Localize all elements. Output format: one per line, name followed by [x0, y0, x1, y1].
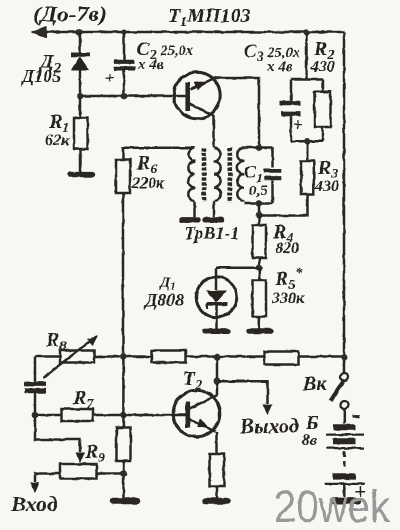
ground under left winding: [182, 217, 198, 222]
svg-text:х 4в: х 4в: [266, 59, 293, 75]
node junction bus/R6 line: [120, 353, 127, 360]
resistor R6: [116, 148, 194, 357]
node junction R4/R5: [256, 264, 263, 271]
capacitor input left: [25, 382, 47, 387]
resistor bus middle: [152, 351, 186, 363]
wire T1 emitter to tank top: [213, 78, 259, 148]
resistor bus right: [265, 352, 299, 365]
resistor R8: [60, 351, 94, 363]
svg-text:R8: R8: [45, 329, 66, 354]
wire zener link: [216, 267, 259, 270]
svg-text:R9: R9: [84, 441, 105, 466]
zener diode D1: [196, 268, 237, 331]
transformer core bars: [202, 148, 207, 202]
ground below R1: [70, 172, 93, 177]
wire tank loop bottom: [244, 202, 273, 205]
wire R3 bottom connector: [259, 194, 308, 216]
node junction top of D2: [76, 29, 83, 36]
svg-text:430: 430: [314, 178, 339, 195]
inductor tank winding: [237, 148, 244, 202]
ground under D1: [205, 329, 229, 334]
svg-text:20wek: 20wek: [274, 481, 390, 530]
resistor R9: [60, 464, 97, 479]
wire tank loop top: [244, 146, 273, 149]
diode D2: [71, 32, 91, 96]
wire feedback bus: [35, 355, 344, 358]
node junction D2/R1: [77, 93, 84, 100]
svg-text:R7: R7: [72, 387, 94, 412]
node junction R3 top: [304, 138, 311, 145]
resistor R2: [291, 33, 331, 142]
svg-text:(До-7в): (До-7в): [33, 2, 107, 26]
wire T2 emitter down: [215, 432, 218, 454]
switch Bk: [331, 357, 349, 423]
svg-text:С1: С1: [244, 162, 263, 185]
node junction tank top: [256, 144, 263, 151]
svg-text:+: +: [105, 68, 115, 87]
svg-text:Б: Б: [305, 412, 319, 434]
svg-text:Вк: Вк: [302, 373, 327, 395]
node junction R7 / R6-line: [120, 412, 127, 419]
node junction top of C2: [121, 29, 126, 34]
capacitor C1: [264, 148, 282, 204]
capacitor C2: [114, 32, 135, 96]
node junction tank bottom: [256, 200, 263, 207]
node junction R4 top: [256, 212, 263, 219]
node junction output branch: [214, 378, 221, 385]
node arrow output: [263, 405, 272, 416]
resistor T2 emitter: [210, 454, 225, 487]
resistor R5: [253, 268, 267, 331]
wire output branch: [217, 381, 268, 404]
wire top supply rail: [33, 31, 344, 34]
wire T1 collector down to winding: [212, 116, 215, 149]
svg-text:330к: 330к: [271, 290, 305, 307]
svg-text:62к: 62к: [45, 132, 70, 149]
ground below R9: [113, 498, 137, 505]
svg-text:820: 820: [275, 240, 299, 257]
wire tank to R4: [258, 204, 261, 216]
node R9 wiper arrowhead: [76, 453, 85, 464]
svg-text:R5*: R5*: [274, 266, 303, 293]
wire base of T2 / R7: [35, 414, 186, 417]
ground under middle winding: [205, 217, 222, 222]
transformer Tr winding left: [188, 148, 195, 201]
svg-text:Вход: Вход: [10, 492, 58, 516]
transistor T1: [174, 72, 220, 118]
wire base of T1: [80, 95, 186, 98]
node junction R9 right: [120, 470, 127, 477]
svg-text:Д105: Д105: [20, 66, 61, 86]
svg-text:+: +: [293, 115, 303, 134]
svg-text:Т2: Т2: [183, 368, 202, 393]
resistor above ground right of R9: [117, 428, 131, 462]
transformer Tr winding middle: [214, 148, 221, 201]
svg-text:R6: R6: [136, 152, 157, 177]
svg-text:ТрВ1-1: ТрВ1-1: [184, 223, 240, 243]
ground under R5: [249, 328, 271, 333]
svg-text:х 4в: х 4в: [137, 57, 164, 73]
svg-text:Выход: Выход: [239, 414, 299, 438]
svg-text:Т1МП103: Т1МП103: [168, 5, 251, 30]
ground below T2 emitter resistor: [206, 498, 228, 505]
wire left branch down: [34, 357, 37, 382]
wire T2 collector up: [216, 357, 219, 395]
resistor R3: [301, 141, 314, 194]
transistor T2: [173, 390, 220, 437]
capacitor C3: [280, 80, 301, 142]
svg-text:0,5: 0,5: [249, 183, 268, 199]
node arrow to (До-7в): [33, 27, 47, 38]
node junction top of C3/R2: [303, 29, 309, 35]
resistor R1: [74, 96, 88, 172]
resistor R7: [62, 409, 94, 421]
battery B 8v: [325, 416, 365, 500]
resistor R4: [253, 216, 267, 268]
svg-text:8в: 8в: [302, 432, 317, 449]
svg-text:Д808: Д808: [143, 290, 184, 310]
wire R9 wiper feed: [35, 415, 80, 452]
node R8 wiper arrow: [43, 339, 94, 378]
svg-text:220к: 220к: [131, 175, 165, 192]
wire R6-line lower: [122, 357, 125, 428]
node junction C2 base: [121, 93, 128, 100]
node junction R7 left: [32, 412, 39, 419]
node arrow input: [31, 483, 40, 494]
node junction bus/T2 collector: [214, 354, 221, 361]
wire right supply rail: [343, 32, 346, 358]
node junction bus/switch: [341, 354, 348, 361]
svg-text:430: 430: [310, 59, 335, 76]
